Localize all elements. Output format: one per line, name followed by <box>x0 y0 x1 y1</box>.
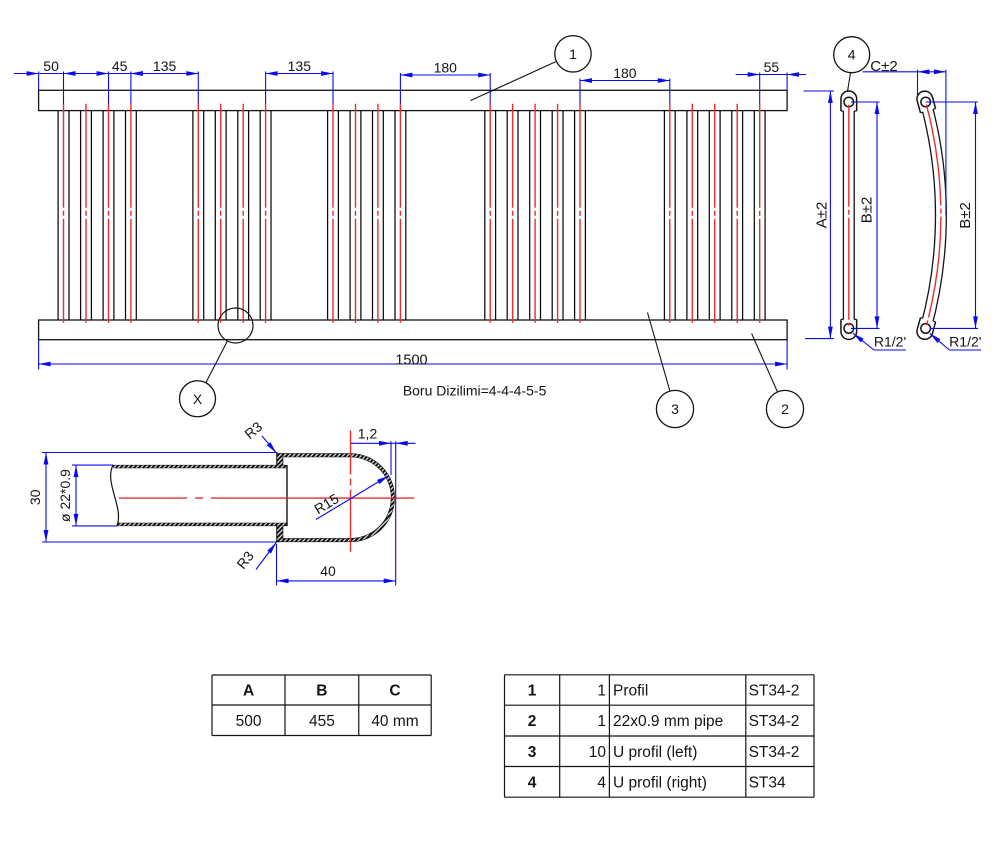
dim 30 extension lines <box>42 452 278 454</box>
front view: top rail (profil) <box>39 90 788 110</box>
dim 45 right arrow <box>131 71 143 76</box>
svg-text:3: 3 <box>528 744 537 761</box>
tube T21 walls <box>731 111 733 320</box>
dim 180b left arrow <box>580 78 592 83</box>
tube T22 walls <box>753 111 755 320</box>
front view: bottom rail (profil) <box>39 320 788 340</box>
balloon 3 <box>656 390 693 427</box>
curved profile bottom cap (U profil) <box>915 318 935 341</box>
detail: cap flange top (hatched) <box>276 453 283 465</box>
tube T20 walls <box>708 111 710 320</box>
svg-text:1: 1 <box>528 683 537 700</box>
tube T5 walls <box>192 111 194 320</box>
svg-text:40: 40 <box>320 563 336 579</box>
R1/2 right arrowhead <box>930 333 941 343</box>
dim ø22*0.9 line <box>75 465 77 526</box>
dim C right arrow <box>934 69 946 74</box>
tube T12 red centerline <box>399 104 401 326</box>
curved profile hole rings <box>921 97 931 107</box>
curved profile outer wall arc <box>931 101 946 330</box>
svg-text:Boru Dizilimi=4-4-4-5-5: Boru Dizilimi=4-4-4-5-5 <box>403 383 547 399</box>
R3 top leader <box>262 436 276 453</box>
dim A bottom arrow <box>828 327 833 339</box>
tube T10 red centerline <box>355 104 357 326</box>
svg-text:C: C <box>389 683 400 700</box>
svg-text:2: 2 <box>781 401 789 417</box>
dim 50 left arrow <box>27 71 39 76</box>
detail: red vertical centerline <box>350 431 352 552</box>
balloon X <box>180 381 216 417</box>
svg-text:55: 55 <box>764 59 780 75</box>
svg-text:1: 1 <box>569 46 577 62</box>
tube T17 red centerline <box>579 104 581 326</box>
tube T9 red centerline <box>332 104 334 326</box>
dim A±2 extension lines <box>804 90 835 92</box>
svg-text:A: A <box>243 683 254 700</box>
dim C±2 line <box>863 71 946 73</box>
svg-text:ø 22*0.9: ø 22*0.9 <box>57 469 73 522</box>
straight profile red centerline <box>848 105 850 326</box>
svg-text:R1/2': R1/2' <box>874 334 906 350</box>
dim 40 left arrow <box>277 579 289 584</box>
R1/2 left arrowhead <box>853 333 864 342</box>
R1/2 leader (left) <box>853 333 874 350</box>
tube T21 red centerline <box>736 104 738 326</box>
tube T18 red centerline <box>669 104 671 326</box>
dim 55 line <box>736 74 806 76</box>
dim 1500 line <box>39 363 788 365</box>
tube T1 red centerline <box>63 104 65 326</box>
tube T3 red centerline <box>108 104 110 326</box>
svg-text:45: 45 <box>112 58 128 74</box>
tube T11 red centerline <box>377 104 379 326</box>
balloon 3 leader <box>648 313 670 392</box>
svg-text:4: 4 <box>528 774 537 791</box>
curved profile top cap (U profil) <box>915 89 935 112</box>
detail: cap flange bottom (hatched) <box>276 526 283 542</box>
svg-text:B±2: B±2 <box>859 197 876 224</box>
dim 135a left arrow <box>131 71 143 76</box>
dim A top arrow <box>828 91 833 103</box>
svg-text:4: 4 <box>597 774 606 791</box>
svg-text:10: 10 <box>589 744 607 761</box>
straight profile hole rings <box>844 97 854 107</box>
tube T13 walls <box>484 111 486 320</box>
dim B±2 (left) line <box>876 102 878 328</box>
tube T11 walls <box>372 111 374 320</box>
dim 30 bottom arrow <box>44 530 49 542</box>
svg-text:30: 30 <box>27 489 43 505</box>
svg-text:ST34: ST34 <box>749 774 786 791</box>
dim 135b line <box>266 73 333 75</box>
dim A±2 line <box>829 91 831 339</box>
dim B left top arrow <box>875 102 880 114</box>
svg-text:50: 50 <box>43 58 59 74</box>
dim 1,2 left arrow <box>379 441 391 446</box>
tube T5 red centerline <box>197 104 199 326</box>
dim B±2 (right) extension lines <box>926 101 978 103</box>
detail: U profil cap wall (hatched) <box>278 455 393 540</box>
svg-text:ST34-2: ST34-2 <box>749 713 800 730</box>
straight profile tube walls <box>842 105 844 325</box>
tube T8 walls <box>259 111 261 320</box>
svg-text:R1/2': R1/2' <box>949 334 981 350</box>
R3 top arrowhead <box>267 442 277 453</box>
tube T12 walls <box>394 111 396 320</box>
dim 1500 right arrow <box>775 362 787 367</box>
svg-text:500: 500 <box>236 713 262 730</box>
dim B right bottom arrow <box>973 316 978 328</box>
tube T8 red centerline <box>265 104 267 326</box>
tube T16 walls <box>551 111 553 320</box>
svg-text:22x0.9 mm pipe: 22x0.9 mm pipe <box>613 713 723 730</box>
dim 30 line <box>45 453 47 543</box>
dim B right top arrow <box>973 102 978 114</box>
dim 1,2 right arrow <box>396 441 408 446</box>
leader to balloon X <box>206 341 228 383</box>
svg-text:180: 180 <box>434 60 458 76</box>
svg-text:135: 135 <box>288 58 312 74</box>
curved profile red centerline arc <box>926 105 941 326</box>
detail: pipe end edge <box>286 465 288 526</box>
R1/2 leader (right) <box>930 333 950 350</box>
dim 180b right arrow <box>658 78 670 83</box>
tube T3 walls <box>102 111 104 320</box>
detail: pipe bottom wall (hatched) <box>117 523 287 526</box>
curved profile inner wall arc <box>920 104 935 327</box>
dim 40 extension lines <box>276 544 278 586</box>
tube T17 walls <box>574 111 576 320</box>
tube T13 red centerline <box>489 104 491 326</box>
balloon 1 <box>555 36 591 72</box>
svg-text:C±2: C±2 <box>870 58 897 75</box>
dim 135b right arrow <box>321 71 333 76</box>
dim 50-45-135 line <box>14 73 144 75</box>
tube T15 red centerline <box>534 104 536 326</box>
dim 135a line <box>131 73 198 75</box>
svg-text:B±2: B±2 <box>957 202 974 229</box>
tube T14 red centerline <box>512 104 514 326</box>
tube T16 red centerline <box>557 104 559 326</box>
dim 50 right arrow <box>64 71 76 76</box>
balloon 4 <box>834 37 870 73</box>
dim 30 top arrow <box>44 453 49 465</box>
dim 135b left arrow <box>266 71 278 76</box>
dim C left arrow <box>918 69 930 74</box>
svg-text:1: 1 <box>597 713 606 730</box>
dim 45 left arrow <box>97 71 109 76</box>
dim 1500 extension lines <box>38 340 40 370</box>
R15 arrowhead <box>377 476 389 484</box>
dim ø22 bottom arrow <box>74 514 79 526</box>
tube T4 walls <box>125 111 127 320</box>
tube T19 walls <box>686 111 688 320</box>
dim 180b line <box>580 80 670 82</box>
dim 1,2 line <box>351 442 416 444</box>
tube T1 walls <box>57 111 59 320</box>
tube T7 red centerline <box>242 104 244 326</box>
svg-text:3: 3 <box>671 401 679 417</box>
svg-text:A±2: A±2 <box>814 202 831 229</box>
dim 40 line <box>277 580 396 582</box>
detail: pipe break line <box>111 465 119 526</box>
tube T18 walls <box>663 111 665 320</box>
svg-text:455: 455 <box>309 713 335 730</box>
detail circle X <box>218 308 253 343</box>
tube T15 walls <box>529 111 531 320</box>
tube T4 red centerline <box>130 104 132 326</box>
svg-text:B: B <box>316 683 327 700</box>
tube T10 walls <box>349 111 351 320</box>
dim B±2 (left) extension lines <box>851 101 880 103</box>
svg-text:4: 4 <box>848 47 856 63</box>
svg-text:1,2: 1,2 <box>358 426 378 442</box>
tube T19 red centerline <box>691 104 693 326</box>
dim ø22 top arrow <box>74 465 79 477</box>
svg-text:135: 135 <box>153 58 177 74</box>
tube T2 red centerline <box>85 104 87 326</box>
dim C±2 extension lines <box>917 70 919 98</box>
svg-text:ST34-2: ST34-2 <box>749 683 800 700</box>
R3 bottom arrowhead <box>267 543 276 554</box>
svg-text:U profil (right): U profil (right) <box>613 774 707 791</box>
dim B±2 (right) line <box>975 102 977 328</box>
dim 135a right arrow <box>186 71 198 76</box>
balloon 2 leader <box>752 334 778 393</box>
dim 180a left arrow <box>400 73 412 78</box>
tube T9 walls <box>327 111 329 320</box>
svg-text:2: 2 <box>528 713 537 730</box>
dim 180a right arrow <box>478 73 490 78</box>
svg-text:X: X <box>193 391 203 407</box>
svg-text:40 mm: 40 mm <box>371 713 418 730</box>
balloon 4 leader <box>847 73 850 92</box>
detail: red horizontal centerline <box>119 497 414 499</box>
detail: pipe top wall (hatched) <box>113 465 287 468</box>
svg-text:180: 180 <box>613 65 637 81</box>
dim 1500 left arrow <box>39 362 51 367</box>
dim B left bottom arrow <box>875 316 880 328</box>
svg-text:ST34-2: ST34-2 <box>749 744 800 761</box>
straight profile top cap (U profil) <box>841 91 857 111</box>
dim 40 right arrow <box>384 579 396 584</box>
tube T22 red centerline <box>759 104 761 326</box>
tube T20 red centerline <box>714 104 716 326</box>
dim 55 right arrow <box>787 72 799 77</box>
dim ø22*0.9 extension lines <box>72 464 113 466</box>
table ABC <box>212 675 431 736</box>
tube T6 red centerline <box>220 104 222 326</box>
svg-text:1500: 1500 <box>395 352 427 368</box>
dim 55 left arrow <box>748 72 760 77</box>
svg-text:Profil: Profil <box>613 683 648 700</box>
tube T6 walls <box>214 111 216 320</box>
balloon 2 <box>766 390 803 427</box>
R15 leader <box>316 476 389 520</box>
svg-text:1: 1 <box>597 683 606 700</box>
R3 bottom leader <box>256 543 276 570</box>
svg-text:U profil (left): U profil (left) <box>613 744 697 761</box>
dim 180a line <box>400 74 490 76</box>
dim chain extension lines <box>38 72 40 91</box>
straight profile bottom cap (U profil) <box>841 319 857 339</box>
dim 1,2 extension line <box>390 441 392 475</box>
balloon 1 leader <box>470 61 556 100</box>
parts table grid <box>505 675 815 797</box>
tube T7 walls <box>237 111 239 320</box>
tube T2 walls <box>80 111 82 320</box>
tube T14 walls <box>506 111 508 320</box>
